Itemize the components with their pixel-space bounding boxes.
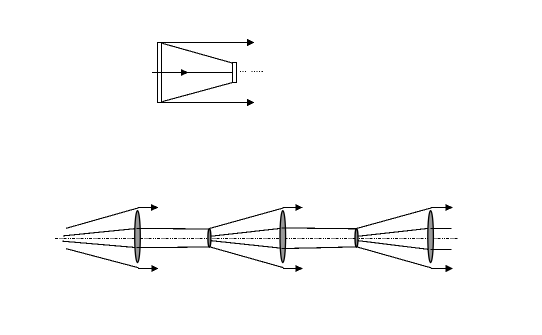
L1 bottom arrow wire	[138, 268, 152, 270]
beam edge wire upper (L2 to W2)	[282, 227, 356, 230]
axis wire (center)	[152, 72, 233, 74]
L1 top arrow wire	[138, 207, 152, 209]
lens L1	[135, 211, 141, 263]
wire bottom edge	[158, 102, 249, 104]
L3 top arrow head	[446, 204, 453, 211]
stage 1 ray upper outer	[66, 208, 138, 229]
stage 2 ray lower inner	[210, 241, 282, 249]
beam edge wire lower (L2 to W2)	[282, 247, 356, 249]
L3 bottom arrow head	[446, 265, 453, 272]
stage 2 ray upper outer	[210, 208, 284, 229]
stage 2 ray lower outer	[210, 247, 284, 268]
horn upper slanted wall	[162, 43, 233, 63]
L2 top arrow wire	[283, 207, 296, 209]
L1 bottom arrow head	[151, 265, 158, 272]
stage 1 ray upper inner	[63, 229, 137, 236]
L1 top arrow head	[151, 204, 158, 211]
source plate (left vertical double line)	[158, 43, 162, 103]
arrow head center	[181, 69, 188, 76]
dotted axis segment 1	[240, 71, 246, 73]
exit wire upper (after L3)	[431, 228, 452, 230]
lens L3	[428, 211, 434, 263]
L3 bottom arrow wire	[431, 268, 446, 270]
beam edge wire upper (L1 to W1)	[136, 227, 209, 230]
L2 bottom arrow head	[296, 265, 303, 272]
stage 1 ray lower inner	[63, 241, 137, 247]
L2 top arrow head	[296, 204, 303, 211]
stage 3 ray lower inner	[358, 241, 431, 250]
exit wire lower (after L3)	[431, 249, 452, 251]
beam edge wire lower (L1 to W1)	[136, 246, 209, 249]
stage 1 ray lower outer	[66, 249, 138, 268]
L3 top arrow wire	[431, 207, 446, 209]
arrow head top	[247, 39, 254, 46]
optical axis (dash-dot)	[55, 238, 459, 240]
waist W2	[355, 229, 358, 248]
stage 3 ray upper outer	[357, 208, 431, 229]
waist W1	[208, 229, 211, 248]
wire top edge	[158, 42, 249, 44]
L2 bottom arrow wire	[283, 268, 296, 270]
horn lower slanted wall	[162, 82, 233, 101]
stage 3 ray lower outer	[357, 247, 431, 268]
stage 2 ray upper inner	[210, 228, 282, 236]
stage 3 ray upper inner	[358, 228, 431, 236]
dotted axis segment 2	[251, 71, 264, 73]
lens L2	[280, 211, 286, 263]
aperture (right narrow rectangle)	[233, 63, 237, 83]
arrow head bottom	[247, 99, 254, 106]
